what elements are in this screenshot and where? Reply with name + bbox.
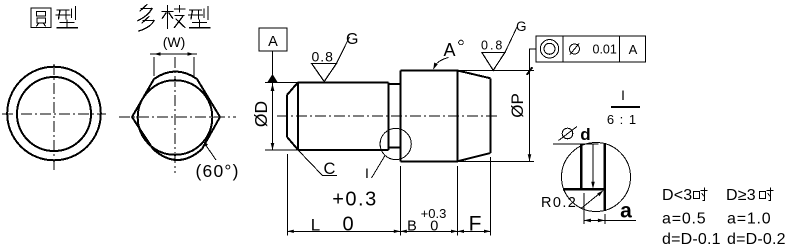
svg-text:A: A [629, 42, 638, 57]
svg-text:F: F [469, 213, 482, 236]
svg-text:A: A [268, 34, 278, 50]
svg-text:a: a [620, 200, 632, 223]
svg-text:D≥3: D≥3 [726, 187, 756, 204]
svg-text:a=0.5: a=0.5 [662, 211, 706, 228]
svg-text:B: B [407, 219, 417, 235]
svg-text:0.8: 0.8 [312, 49, 334, 65]
svg-text:0: 0 [430, 219, 438, 235]
svg-text:6 : 1: 6 : 1 [607, 112, 637, 127]
svg-text:(60°): (60°) [196, 161, 240, 181]
svg-text:+0.3: +0.3 [332, 189, 377, 211]
svg-text:G: G [346, 31, 358, 48]
svg-text:D<3: D<3 [662, 187, 692, 204]
svg-text:0.8: 0.8 [481, 39, 504, 53]
svg-text:d=D-0.2: d=D-0.2 [727, 231, 786, 248]
svg-text:G: G [516, 19, 527, 34]
svg-text:ØP: ØP [508, 93, 527, 118]
svg-text:C: C [324, 160, 336, 178]
svg-text:d: d [580, 125, 590, 144]
svg-text:A: A [444, 40, 456, 60]
svg-text:I: I [621, 88, 625, 103]
svg-text:I: I [365, 165, 369, 181]
svg-text:0.01: 0.01 [593, 43, 617, 57]
svg-text:0: 0 [342, 214, 353, 236]
svg-text:a=1.0: a=1.0 [727, 211, 771, 228]
svg-text:(W): (W) [163, 34, 186, 50]
svg-text:L: L [311, 216, 320, 235]
svg-text:R0.2: R0.2 [541, 195, 577, 211]
svg-text:d=D-0.1: d=D-0.1 [662, 231, 721, 248]
svg-text:ØD: ØD [251, 101, 271, 127]
